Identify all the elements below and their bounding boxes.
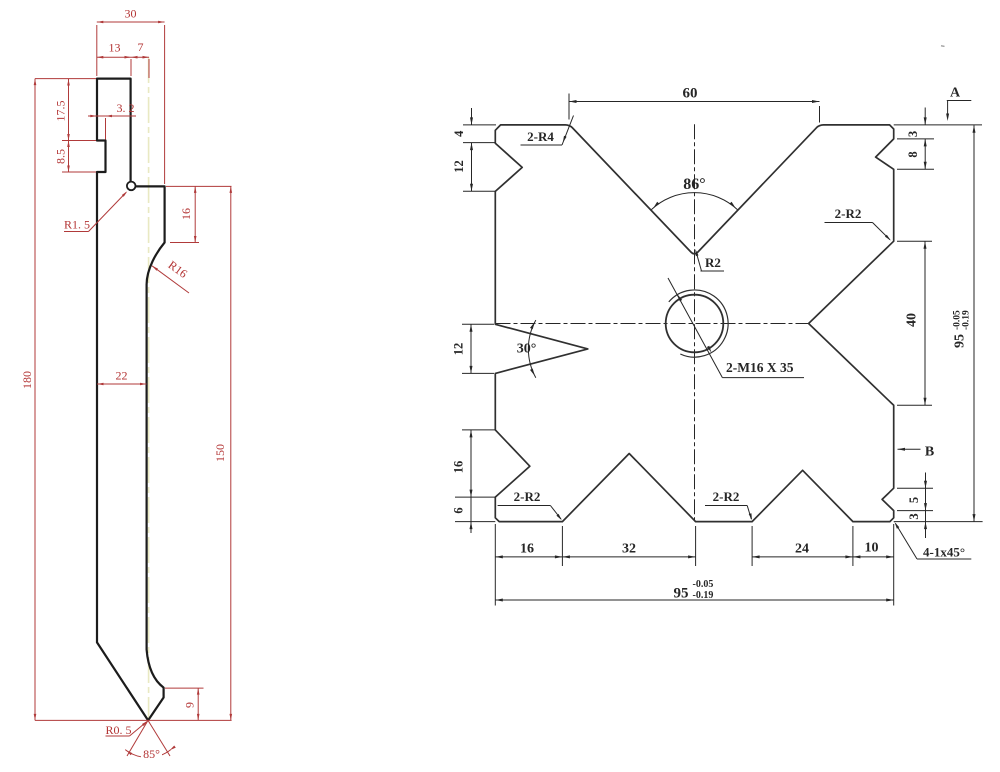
svg-text:95: 95 — [674, 586, 689, 602]
svg-text:R1. 5: R1. 5 — [64, 218, 90, 232]
svg-text:10: 10 — [865, 541, 879, 556]
extension lines for 30 — [96, 25, 98, 76]
extension lines bottom dims — [494, 524, 496, 606]
dimension 16 bottom — [495, 555, 503, 558]
dimension 32 bottom — [562, 555, 570, 558]
dimension 180 — [34, 79, 36, 721]
svg-text:30: 30 — [125, 7, 137, 21]
svg-text:R2: R2 — [705, 255, 721, 270]
bottom chain dimension line — [495, 556, 695, 558]
centerline of punch (pale dash-dot) — [148, 57, 150, 720]
extension lines 3/8 — [894, 124, 982, 126]
section marker B — [898, 448, 921, 450]
svg-text:3: 3 — [907, 513, 921, 519]
punch outline — [97, 79, 165, 721]
svg-text:9: 9 — [183, 702, 197, 708]
svg-text:16: 16 — [452, 461, 466, 474]
leader 2-M16x35 — [668, 278, 722, 378]
extension line for 3.2 — [105, 118, 107, 140]
dimension 40 — [924, 241, 926, 405]
extension lines for 13/7 — [130, 59, 132, 76]
svg-text:R16: R16 — [166, 258, 190, 281]
tapped hole thread arc (3/4) — [669, 290, 728, 357]
dimension 7 — [131, 56, 149, 58]
dimension 24 bottom — [752, 555, 760, 558]
svg-text:150: 150 — [213, 444, 227, 462]
svg-text:86°: 86° — [683, 176, 705, 193]
svg-text:95: 95 — [953, 334, 968, 348]
svg-text:32: 32 — [622, 542, 636, 557]
dimension 22 — [97, 383, 147, 385]
svg-text:30°: 30° — [517, 342, 537, 357]
svg-text:4: 4 — [452, 130, 466, 137]
dimension 95 right with tolerance — [973, 125, 975, 521]
leader R0.5 — [106, 735, 130, 737]
svg-text:2-M16 X 35: 2-M16 X 35 — [726, 360, 794, 375]
svg-text:180: 180 — [20, 371, 34, 389]
svg-text:B: B — [925, 445, 934, 460]
leader R1.5 — [89, 193, 127, 232]
dimension 3.2 — [88, 115, 136, 117]
svg-text:12: 12 — [452, 343, 466, 356]
svg-text:3. 2: 3. 2 — [117, 101, 135, 115]
dimension 30 top — [97, 21, 165, 23]
dimension 3 (top right) — [924, 108, 926, 125]
svg-text:22: 22 — [116, 369, 128, 383]
baseline extension at tip — [35, 719, 232, 721]
extension lines 4/12 — [463, 124, 496, 126]
svg-text:17.5: 17.5 — [54, 101, 68, 122]
dimension 4 (left top) — [471, 108, 473, 125]
svg-text:12: 12 — [452, 160, 466, 173]
dimension 5 (bottom right) — [925, 473, 927, 539]
extension lines for 17.5/8.5 — [62, 140, 96, 142]
dimension 60 — [569, 101, 820, 103]
die vertical centerline — [694, 124, 696, 521]
svg-text:7: 7 — [138, 40, 144, 54]
svg-text:8: 8 — [906, 151, 920, 157]
svg-text:-0.05: -0.05 — [693, 579, 714, 590]
die outline — [495, 125, 893, 522]
svg-text:85°: 85° — [143, 747, 160, 761]
svg-text:3: 3 — [906, 131, 920, 137]
die horizontal centerline — [496, 323, 810, 325]
svg-text:R0. 5: R0. 5 — [106, 723, 132, 737]
svg-text:16: 16 — [520, 542, 534, 557]
dimension 9 — [165, 687, 204, 689]
svg-text:6: 6 — [452, 507, 466, 513]
dimension 6 (left bottom) — [470, 522, 473, 530]
stray small mark top right — [941, 45, 945, 48]
svg-text:A: A — [950, 86, 961, 101]
svg-text:13: 13 — [109, 41, 121, 55]
svg-text:2-R2: 2-R2 — [514, 489, 541, 504]
dimension 10 bottom — [853, 555, 861, 558]
svg-text:16: 16 — [179, 208, 193, 220]
svg-text:2-R2: 2-R2 — [835, 206, 862, 221]
dimension 150 — [230, 186, 232, 720]
dimension 8.5 — [68, 141, 70, 173]
fillet circle R1.5 — [127, 182, 136, 191]
extension lines 5/3 — [897, 487, 933, 489]
angle 85 at tip — [127, 720, 148, 756]
svg-text:4-1x45°: 4-1x45° — [923, 545, 965, 560]
svg-text:-0.19: -0.19 — [693, 590, 714, 601]
svg-text:2-R2: 2-R2 — [713, 489, 740, 504]
svg-text:2-R4: 2-R4 — [527, 129, 554, 144]
dimension 17.5 — [68, 79, 70, 141]
dimension 8 (top right) — [924, 139, 926, 169]
dimension 16 (step) — [166, 185, 232, 187]
svg-text:24: 24 — [795, 542, 809, 557]
extension lines 16/6 — [462, 429, 495, 431]
svg-text:40: 40 — [905, 313, 920, 327]
leader R16 — [152, 266, 189, 293]
dimension 12 (left) — [471, 143, 473, 192]
dimension 13 — [97, 56, 131, 58]
svg-text:-0.19: -0.19 — [962, 310, 972, 330]
svg-text:60: 60 — [683, 86, 698, 102]
dimension 16 (left bottom) — [470, 430, 472, 533]
dimension 12 at 30 degree notch — [470, 324, 472, 373]
svg-text:8.5: 8.5 — [54, 149, 68, 164]
tapped hole 2-M16 inner circle — [666, 295, 724, 353]
svg-text:5: 5 — [907, 497, 921, 503]
dimension 95 bottom with tolerance — [495, 599, 893, 601]
